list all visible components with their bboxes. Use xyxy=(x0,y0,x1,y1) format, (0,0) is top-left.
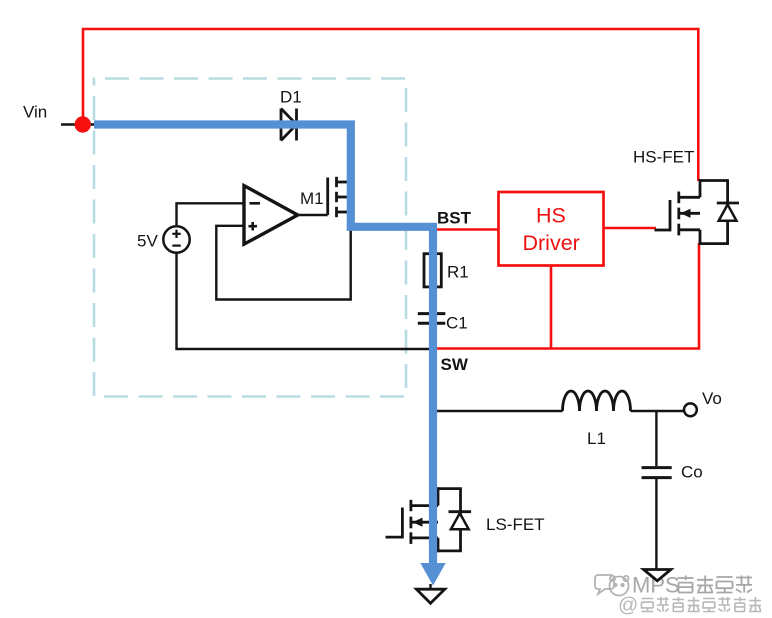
wire red driver output to HS-FET gate xyxy=(604,227,657,230)
diode D1 xyxy=(281,109,297,141)
wire junction to Co xyxy=(655,411,657,466)
blue current path xyxy=(94,125,433,564)
svg-text:C1: C1 xyxy=(446,314,468,333)
wire red SW rail xyxy=(436,243,699,349)
op-amp U1 xyxy=(244,186,298,245)
svg-text:Vo: Vo xyxy=(702,389,722,408)
wire SW to L1 xyxy=(436,410,563,412)
blue arrowhead xyxy=(420,563,445,586)
svg-text:Co: Co xyxy=(681,463,703,482)
svg-text:@: @ xyxy=(618,595,638,617)
svg-text:R1: R1 xyxy=(447,263,469,282)
wire op-amp output to M1 gate xyxy=(298,214,328,216)
svg-text:M1: M1 xyxy=(300,189,324,208)
transistor M1 xyxy=(328,177,348,217)
ground output xyxy=(644,570,671,581)
svg-text:D1: D1 xyxy=(280,88,302,107)
svg-text:Driver: Driver xyxy=(523,231,580,255)
terminal Vo xyxy=(684,403,697,416)
svg-text:5V: 5V xyxy=(137,232,158,251)
wire Vin stub xyxy=(61,123,95,126)
transistor HS-FET xyxy=(655,179,729,245)
svg-text:LS-FET: LS-FET xyxy=(486,515,545,534)
svg-text:HS: HS xyxy=(536,204,566,228)
ground main xyxy=(416,589,444,603)
wire feedback loop to plus input xyxy=(216,226,350,300)
source 5V xyxy=(163,226,189,252)
wire red BST to driver xyxy=(436,228,499,231)
wire red driver bottom pin xyxy=(550,266,553,349)
svg-text:HS-FET: HS-FET xyxy=(633,148,694,167)
capacitor C1 xyxy=(418,314,446,324)
dashed boundary box xyxy=(94,79,406,397)
svg-text:SW: SW xyxy=(441,355,469,374)
node Vin red dot xyxy=(75,116,91,132)
transistor LS-FET xyxy=(386,487,462,552)
capacitor Co xyxy=(642,468,672,478)
wire Co to ground xyxy=(655,478,657,569)
svg-text:Vin: Vin xyxy=(23,103,47,122)
watermark logo xyxy=(595,575,629,596)
svg-text:BST: BST xyxy=(437,209,472,228)
block HS Driver xyxy=(499,192,604,266)
inductor L1 xyxy=(563,391,631,411)
wire arrow tip to ground xyxy=(429,584,431,589)
wire 5V bottom rail to SW xyxy=(177,253,431,349)
wire L1 to Vo xyxy=(631,410,685,412)
wire 5V top to op-amp minus input xyxy=(177,203,245,226)
resistor R1 xyxy=(424,254,441,287)
wire red input loop top xyxy=(83,29,698,181)
svg-text:L1: L1 xyxy=(587,429,606,448)
